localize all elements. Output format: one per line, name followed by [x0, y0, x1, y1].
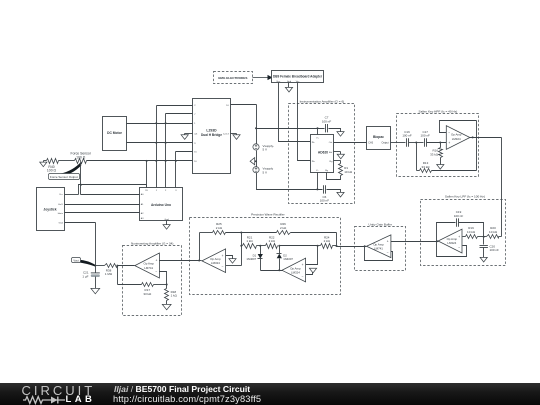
svg-text:2 kΩ: 2 kΩ [216, 226, 223, 230]
wire [327, 173, 341, 180]
wire [198, 260, 201, 262]
section Sallen Key LPF [421, 195, 506, 266]
section precision wave rectifier [190, 213, 341, 295]
arduino box [140, 188, 183, 221]
ground [309, 268, 316, 273]
IC U1 AD620 [311, 135, 334, 173]
svg-text:1N4007: 1N4007 [246, 257, 256, 261]
wire [278, 259, 280, 272]
resistor R20 [487, 226, 502, 238]
resistor R19 [466, 226, 478, 238]
op-amp U3 LM324 [446, 126, 470, 150]
ground [181, 134, 192, 140]
wire [334, 160, 341, 162]
wire [260, 246, 262, 255]
svg-text:+: + [302, 263, 304, 267]
wire [117, 266, 119, 285]
ground [337, 154, 344, 159]
resistor Force Sensor [71, 151, 92, 163]
wire [416, 143, 418, 171]
svg-text:1 µF: 1 µF [82, 274, 88, 278]
svg-text:−: − [458, 246, 460, 250]
wire [409, 142, 424, 144]
svg-text:LM324: LM324 [211, 261, 220, 265]
ground [337, 192, 344, 197]
wire [327, 190, 341, 193]
svg-text:Unity Gain Buffer: Unity Gain Buffer [369, 223, 393, 227]
ground [91, 288, 100, 293]
wire [391, 241, 437, 243]
wire [59, 160, 75, 162]
DB9 adapter box [272, 71, 324, 83]
svg-text:Biopac: Biopac [373, 135, 384, 139]
wire [116, 265, 134, 267]
wire [257, 245, 281, 247]
svg-text:1N4007: 1N4007 [283, 257, 293, 261]
section noninverting amplifier [123, 242, 182, 316]
wire [279, 246, 281, 254]
wire [255, 105, 257, 144]
svg-text:100 nF: 100 nF [490, 248, 500, 252]
wire [459, 223, 484, 237]
svg-text:100 Ω: 100 Ω [47, 169, 57, 173]
wire [65, 222, 96, 224]
wire [337, 246, 365, 248]
svg-text:12,13: 12,13 [223, 133, 229, 135]
resistor R38 [105, 264, 118, 277]
wire [473, 137, 477, 139]
svg-text:10 kΩ: 10 kΩ [489, 230, 498, 234]
svg-text:1 kΩ: 1 kΩ [246, 239, 253, 243]
wire [95, 277, 97, 289]
EMG electrodes box [214, 72, 253, 84]
svg-text:Vout: Vout [73, 258, 79, 262]
svg-text:Horiz: Horiz [58, 212, 63, 215]
wire [365, 246, 367, 248]
wire [432, 170, 477, 172]
wire [65, 194, 79, 196]
wire [127, 123, 193, 125]
ground [231, 134, 241, 140]
svg-text:Out: Out [329, 141, 333, 144]
wire [436, 223, 456, 243]
wire [176, 151, 193, 153]
svg-text:−: − [155, 270, 157, 274]
ground [162, 304, 171, 309]
op-amp U6 LM324 [202, 249, 226, 273]
section unity gain buffer [355, 223, 406, 271]
wire [336, 233, 338, 248]
svg-text:1 kΩ: 1 kΩ [171, 294, 178, 298]
wire [226, 265, 242, 267]
wire [483, 248, 485, 258]
svg-text:Force Sensor Output: Force Sensor Output [50, 175, 78, 179]
wire [440, 121, 477, 133]
wire [306, 246, 318, 265]
wire [226, 232, 277, 234]
CircuitLab logo text [22, 383, 96, 398]
node force sensor output [80, 162, 82, 164]
ground [40, 161, 47, 167]
wire [478, 236, 487, 238]
svg-text:100 Ω: 100 Ω [76, 155, 86, 159]
wire [298, 83, 311, 161]
svg-text:10 kΩ: 10 kΩ [467, 230, 476, 234]
wire [87, 160, 193, 162]
wire [95, 223, 97, 266]
resistor R17 [142, 283, 154, 296]
wire [146, 160, 148, 188]
svg-text:L293D: L293D [206, 128, 217, 132]
svg-text:Dual H Bridge: Dual H Bridge [201, 133, 222, 137]
wire with arrow [253, 75, 273, 80]
node [80, 184, 82, 186]
wire [79, 185, 81, 195]
wire [306, 269, 313, 275]
capacitor C20 [480, 244, 500, 252]
op-amp U4 LM324 [438, 229, 462, 253]
wire [279, 83, 311, 142]
svg-text:Sallen Key HPF (fc = 40 Hz): Sallen Key HPF (fc = 40 Hz) [419, 109, 458, 113]
capacitor C17 [421, 130, 431, 147]
wire [317, 129, 319, 135]
svg-text:5 V: 5 V [263, 170, 268, 174]
wire [80, 164, 82, 195]
svg-text:EMG ELECTRODES: EMG ELECTRODES [218, 76, 247, 80]
wire [317, 173, 319, 190]
wire [329, 129, 341, 132]
wire [470, 136, 502, 138]
svg-text:VerX: VerX [58, 203, 63, 206]
svg-text:+: + [155, 258, 157, 262]
svg-text:+: + [458, 235, 460, 239]
svg-text:2 kΩ: 2 kΩ [269, 239, 276, 243]
resistor R24 [321, 235, 337, 248]
svg-text:LM324: LM324 [452, 137, 461, 141]
svg-text:33 kΩ: 33 kΩ [143, 292, 152, 296]
wire [157, 105, 193, 107]
wire [118, 284, 142, 286]
wire [165, 114, 167, 188]
wire [240, 245, 242, 247]
svg-text:DC Motor: DC Motor [107, 131, 123, 135]
wire [81, 184, 147, 186]
wire [317, 245, 321, 247]
DC motor M1 [103, 117, 127, 151]
svg-text:Instrumentation Amplifier (G =: Instrumentation Amplifier (G = 6) [300, 100, 345, 104]
wire [160, 260, 200, 262]
diode D1 1N4007 [246, 253, 263, 261]
wire [280, 245, 318, 247]
wire [427, 142, 447, 144]
svg-text:−: − [302, 274, 304, 278]
wire [65, 212, 140, 214]
svg-text:+: + [222, 254, 224, 258]
svg-text:−: − [387, 250, 389, 254]
footer bar [0, 383, 540, 405]
flag Force Sensor Output [49, 163, 82, 179]
wire [226, 256, 233, 259]
svg-text:100 nF: 100 nF [421, 134, 431, 138]
resistor R26 [277, 222, 291, 234]
wire [81, 194, 140, 196]
wire [154, 284, 168, 286]
resistor R1 [339, 161, 353, 176]
svg-text:LM324: LM324 [291, 271, 300, 275]
Biopac box [367, 127, 391, 150]
flag Vout [72, 258, 96, 267]
wire [440, 143, 442, 148]
svg-text:2 kΩ: 2 kΩ [324, 239, 331, 243]
svg-text:−: − [448, 131, 450, 135]
svg-text:DB9 Female Breadboard Adapter: DB9 Female Breadboard Adapter [273, 74, 323, 78]
wire [437, 241, 439, 243]
capacitor C6 [320, 185, 330, 202]
IC U2 L293D [193, 99, 231, 174]
op-amp U5 LM741 [367, 235, 391, 258]
wire [291, 232, 337, 234]
wire [257, 173, 323, 191]
resistor R18 [165, 289, 178, 301]
url text [113, 394, 261, 404]
svg-text:Ref: Ref [329, 152, 333, 154]
wire [175, 152, 177, 188]
wire [437, 242, 467, 257]
joystick box [37, 188, 65, 231]
title text [114, 384, 250, 394]
resistor R16 [430, 148, 442, 158]
resistor R21 [243, 235, 257, 248]
svg-text:100 nF: 100 nF [320, 199, 330, 203]
wire [261, 270, 283, 272]
ground [285, 87, 292, 92]
source Vsupply2 [253, 167, 274, 175]
resistor R13 [417, 161, 432, 173]
svg-text:1 MΩ: 1 MΩ [105, 272, 113, 276]
wire [166, 285, 168, 289]
wire [166, 113, 193, 115]
svg-text:Noninverting Amplifier (G = 34: Noninverting Amplifier (G = 34) [131, 242, 173, 246]
diode D2 1N4007 [277, 253, 294, 261]
wire [483, 237, 485, 245]
ground [229, 259, 236, 264]
svg-text:Arduino Uno: Arduino Uno [151, 203, 171, 207]
wire [166, 221, 168, 225]
wire [200, 232, 213, 234]
svg-text:Output: Output [382, 142, 390, 145]
svg-text:+: + [448, 141, 450, 145]
wire [476, 121, 478, 171]
resistor R22 [266, 235, 278, 248]
capacitor C16 [402, 130, 412, 147]
wire [146, 185, 148, 188]
ground [437, 165, 444, 170]
wire [364, 245, 393, 260]
svg-text:100 nF: 100 nF [322, 119, 332, 123]
wire [255, 151, 257, 167]
capacitor C21 [82, 266, 99, 279]
wire [288, 83, 290, 88]
wire [241, 233, 243, 266]
section instrumentation amplifier [289, 100, 355, 204]
svg-text:LM741: LM741 [374, 247, 383, 251]
svg-text:Sallen Key LPF (fc = 100 Hz): Sallen Key LPF (fc = 100 Hz) [445, 195, 485, 199]
capacitor C7 [322, 116, 332, 133]
svg-text:Precision Wave Rectifier: Precision Wave Rectifier [251, 213, 285, 217]
svg-text:10 kΩ: 10 kΩ [344, 170, 353, 174]
wire [160, 272, 167, 285]
wire [463, 236, 466, 238]
svg-text:100 nF: 100 nF [402, 134, 412, 138]
wire [257, 127, 325, 129]
resistor R25 [213, 222, 226, 234]
wire [166, 301, 168, 305]
svg-text:2 kΩ: 2 kΩ [280, 226, 287, 230]
wire [334, 142, 367, 144]
logo resistor and diode glyph [23, 395, 67, 405]
op-amp U8 LM741 [135, 253, 160, 278]
section Sallen Key HPF [397, 109, 479, 176]
wire [334, 152, 341, 155]
wire [155, 106, 157, 188]
ground [337, 132, 344, 137]
svg-text:CH3: CH3 [368, 142, 373, 145]
svg-text:Joystick: Joystick [43, 208, 56, 212]
ground [480, 257, 487, 262]
wire [199, 233, 201, 261]
wire [260, 259, 262, 271]
svg-text:33 kΩ: 33 kΩ [430, 152, 439, 156]
wire [231, 104, 257, 106]
source Vsupply1 [253, 144, 274, 152]
wire [501, 138, 503, 237]
wire [65, 204, 140, 206]
svg-text:100 nF: 100 nF [454, 214, 464, 218]
svg-text:LM324: LM324 [447, 241, 456, 245]
capacitor C19 [454, 210, 464, 227]
wire [440, 158, 442, 165]
svg-text:+: + [387, 240, 389, 244]
wire [391, 142, 406, 144]
svg-text:−: − [222, 265, 224, 269]
ground [250, 158, 256, 165]
svg-text:LM741: LM741 [144, 266, 153, 270]
resistor R40 [44, 159, 59, 173]
svg-text:5 V: 5 V [263, 148, 268, 152]
svg-text:33 kΩ: 33 kΩ [422, 165, 431, 169]
ground [163, 225, 170, 230]
wire [94, 265, 104, 267]
svg-text:AD620: AD620 [318, 151, 328, 155]
wire [127, 142, 193, 144]
op-amp U7 LM324 [282, 258, 306, 282]
